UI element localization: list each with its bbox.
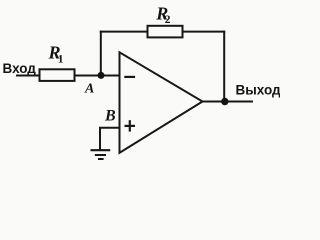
wire R2 to right corner [183, 31, 226, 33]
wire feedback top left segment [100, 31, 147, 33]
plus sign (non-inverting input) [125, 125, 136, 127]
wire input segment [16, 75, 39, 77]
svg-text:B: B [104, 108, 116, 125]
wire feedback down to output node [223, 31, 225, 102]
wire node A up to feedback row [100, 31, 102, 76]
output node junction dot [221, 98, 228, 105]
resistor R1 [40, 69, 75, 81]
svg-text:Выход: Выход [236, 83, 281, 98]
svg-text:A: A [84, 82, 94, 97]
ground [91, 149, 111, 151]
wire R1 to op-amp inverting input [75, 75, 120, 77]
svg-text:Вход: Вход [3, 61, 37, 76]
minus sign (inverting input) [124, 76, 135, 78]
svg-text:1: 1 [58, 53, 64, 65]
resistor R2 [148, 26, 183, 38]
op-amp U1 triangle [120, 52, 203, 153]
svg-text:2: 2 [165, 14, 171, 26]
wire non-inverting input [100, 128, 120, 150]
wire output [202, 101, 253, 103]
node A junction dot [98, 72, 105, 79]
